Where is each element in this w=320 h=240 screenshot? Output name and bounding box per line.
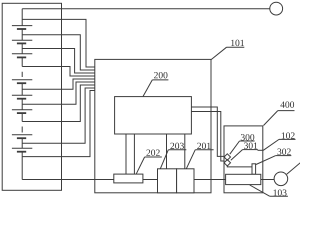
wire switch to fuse 302 bbox=[227, 165, 252, 168]
box 203 bbox=[158, 169, 177, 193]
positive terminal circle bbox=[270, 2, 283, 15]
cell B6 bbox=[12, 110, 32, 113]
label 300 bbox=[230, 134, 255, 154]
sense wire tap 0 bbox=[22, 19, 95, 67]
cell B3 bbox=[12, 54, 32, 58]
sense wire tap 1 bbox=[22, 35, 95, 70]
sense wire tap 6 bbox=[22, 85, 95, 122]
label 202 bbox=[136, 149, 162, 173]
negative terminal circle bbox=[274, 172, 288, 186]
label 400 bbox=[264, 101, 295, 125]
sense wire tap 5 bbox=[22, 82, 95, 104]
wire 200 to switch (a) bbox=[191, 107, 224, 156]
protection unit box 400 bbox=[224, 126, 263, 193]
sense wire tap 8 bbox=[22, 91, 95, 157]
cell B1 bbox=[12, 26, 32, 29]
positive output wire to terminal bbox=[22, 8, 270, 10]
sense wire tap 4 bbox=[22, 79, 95, 89]
switch contact 301 (lower diamond) bbox=[224, 160, 230, 166]
battery stack vertical wire segments bbox=[21, 9, 23, 180]
BMS box 101 bbox=[95, 59, 211, 192]
fuse element 302 bbox=[252, 164, 256, 175]
negative wire to terminal bbox=[261, 179, 274, 181]
label 102 bbox=[258, 132, 296, 150]
cell B4 bbox=[12, 80, 32, 83]
cell B7 bbox=[12, 135, 32, 138]
label 103 bbox=[250, 185, 288, 196]
leader to negative terminal (cut off at edge) bbox=[287, 163, 301, 175]
wire 200 to 202 (a) bbox=[125, 134, 127, 174]
label 302 bbox=[256, 148, 291, 164]
wire 200 to switch (b) bbox=[191, 112, 224, 162]
box 201 bbox=[177, 169, 194, 193]
cell B8 bbox=[12, 148, 32, 151]
label 203 bbox=[160, 143, 186, 169]
sense wire tap 3 bbox=[22, 67, 95, 77]
sense wire tap 2 bbox=[22, 49, 95, 74]
cell B5 bbox=[12, 95, 32, 98]
label 201 bbox=[186, 143, 213, 169]
controller box 200 bbox=[115, 97, 192, 134]
sense wire tap 7 bbox=[22, 88, 95, 143]
shunt box 103 bbox=[226, 174, 261, 184]
battery pack outer rectangle bbox=[2, 3, 61, 190]
wire 200 to 201 bbox=[184, 134, 186, 169]
label 101 bbox=[211, 40, 244, 60]
switch contact 300 (upper diamond) bbox=[224, 154, 230, 160]
wire 200 to 202 (b) bbox=[133, 134, 135, 174]
cell B2 bbox=[12, 40, 32, 43]
negative output wire bbox=[22, 179, 225, 181]
box 202 bbox=[114, 174, 143, 183]
label 301 bbox=[231, 142, 258, 160]
wire 200 to 203 bbox=[166, 134, 168, 169]
label 200 bbox=[143, 72, 168, 97]
